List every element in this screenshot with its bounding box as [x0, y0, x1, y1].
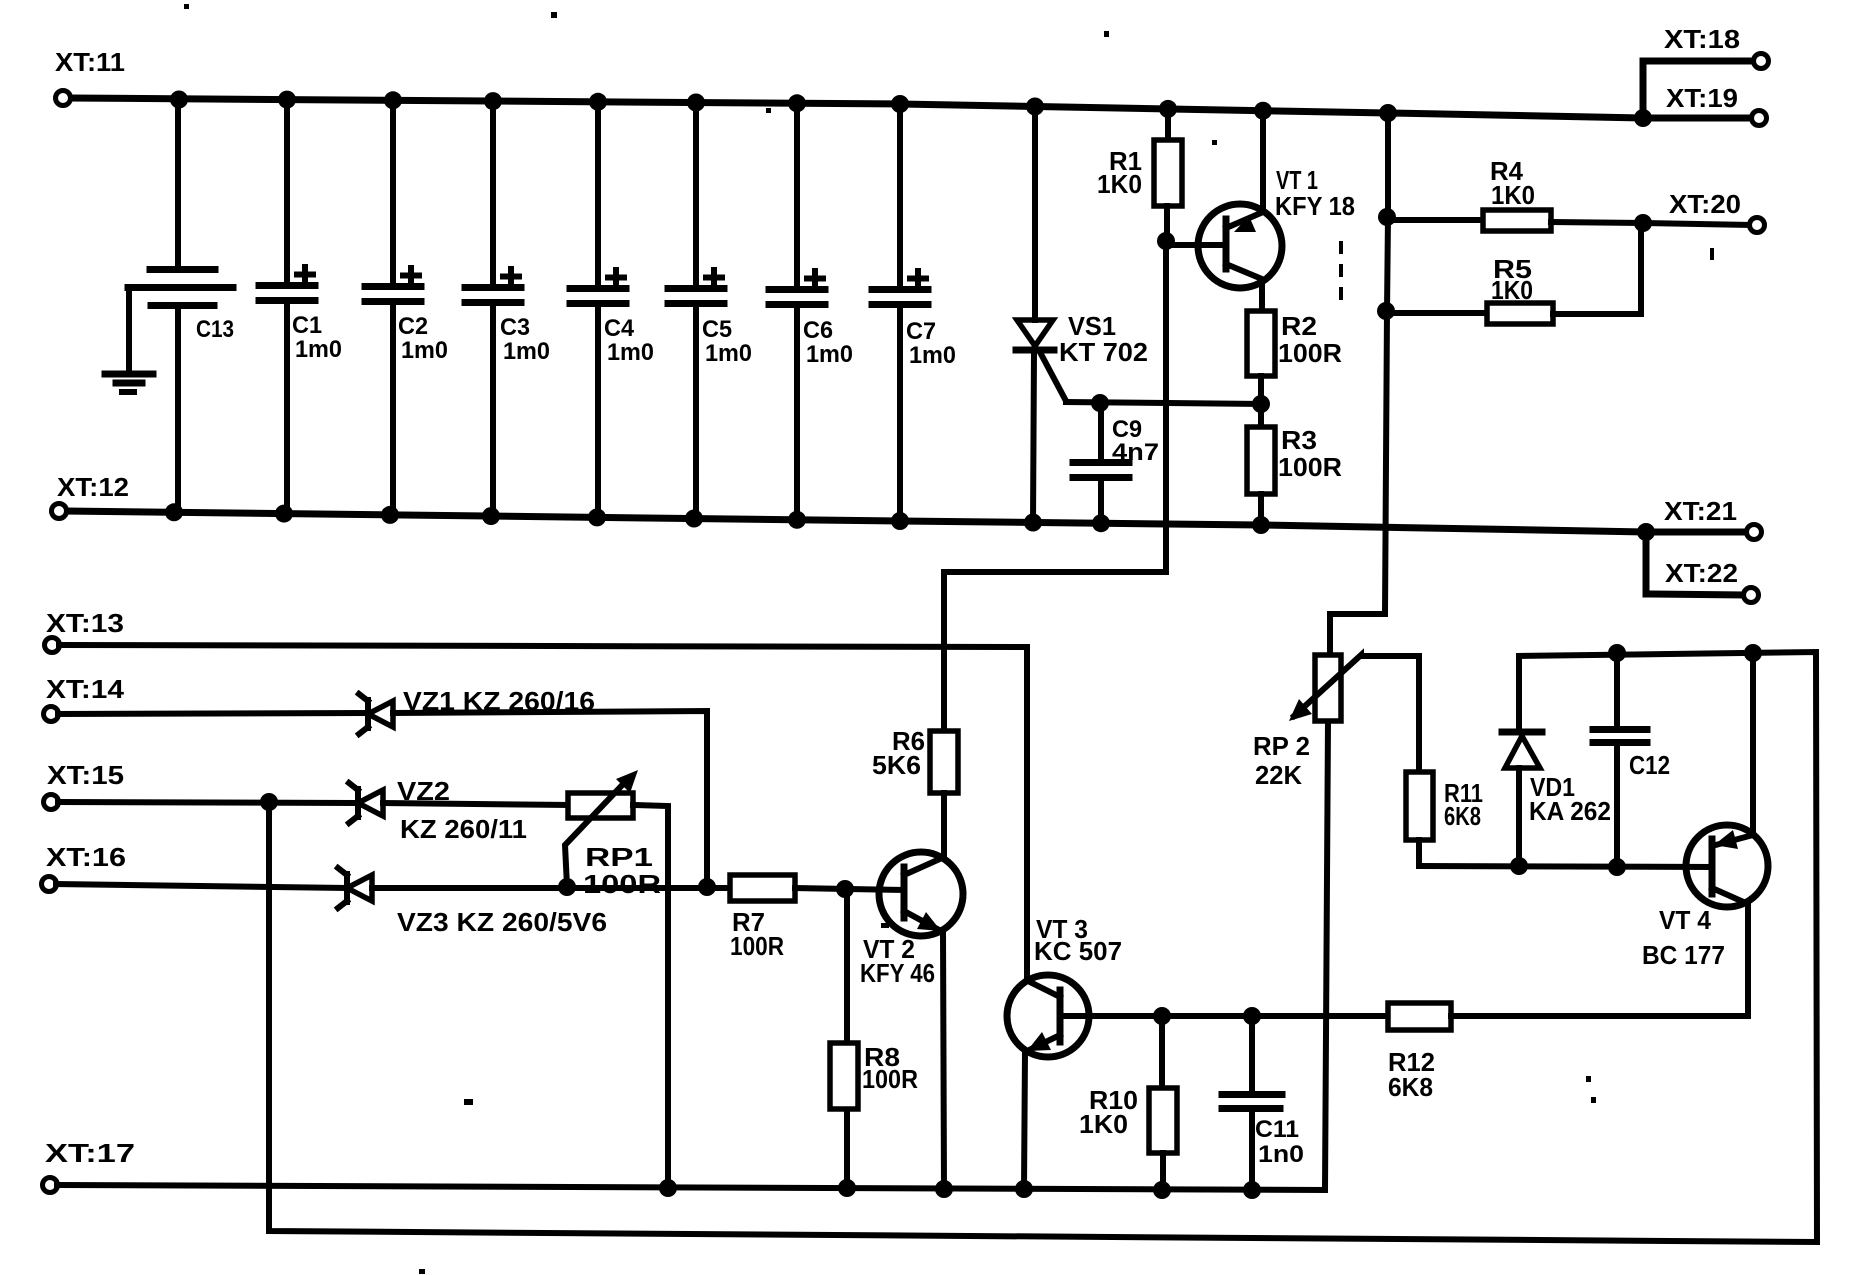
svg-text:KFY 46: KFY 46 [860, 958, 935, 988]
VT4 emitter diagonal and wire up to top line [1712, 653, 1753, 846]
wire: XT:14 to VZ1 [58, 713, 365, 714]
wire: branch from top rail up to XT:18 [1643, 61, 1753, 118]
VT4 base bar [1709, 839, 1716, 894]
svg-text:100R: 100R [1278, 338, 1342, 368]
node XT:22 terminal [1744, 588, 1759, 603]
svg-text:XT:17: XT:17 [45, 1138, 135, 1168]
svg-text:1m0: 1m0 [503, 338, 550, 365]
wire: XT:15 junction down and along bottom to right edge and up to VT4 emitter line [269, 652, 1817, 1242]
svg-text:C3: C3 [500, 314, 530, 341]
resistor R1 1K0 [1097, 109, 1182, 241]
VT2 emitter diagonal [904, 911, 941, 931]
svg-text:C2: C2 [398, 313, 428, 340]
wire: VS1 gate diagonal [1041, 354, 1066, 401]
svg-text:100R: 100R [862, 1064, 918, 1094]
svg-text:XT:19: XT:19 [1666, 83, 1738, 113]
svg-text:KC 507: KC 507 [1034, 936, 1122, 966]
VT1 emitter arrow [1234, 216, 1256, 232]
VT1 emitter diagonal and wire down to R2 [1226, 264, 1262, 311]
svg-text:1K0: 1K0 [1097, 169, 1142, 199]
svg-text:4n7: 4n7 [1112, 439, 1159, 466]
VT3 emitter arrow [1027, 1032, 1051, 1051]
resistor R8 100R [830, 890, 918, 1188]
resistor R4 1K0 [1388, 156, 1641, 231]
svg-text:1K0: 1K0 [1079, 1109, 1128, 1139]
svg-text:XT:22: XT:22 [1665, 558, 1738, 588]
svg-text:KA 262: KA 262 [1529, 796, 1611, 826]
wire: VZ3 to R7 [372, 885, 730, 891]
capacitor C11 1n0 [1222, 1016, 1304, 1190]
wire: VS1 cathode down to bottom rail [1033, 352, 1034, 523]
thyristor VS1 KT 702 [1016, 107, 1148, 523]
wire: C13 centre plate to ground [126, 288, 132, 372]
svg-text:1n0: 1n0 [1258, 1141, 1304, 1168]
svg-text:1m0: 1m0 [806, 341, 853, 368]
svg-text:5K6: 5K6 [872, 750, 921, 780]
VT3 collector diagonal [1028, 981, 1060, 997]
svg-text:1K0: 1K0 [1491, 180, 1535, 210]
node XT:13 terminal [45, 638, 60, 653]
wire: XT:16 to VZ3 [56, 884, 345, 888]
wire: RP1 right end down to XT:17 rail [633, 805, 668, 1188]
wire: top supply rail from XT:11 to XT:19 [70, 98, 1751, 118]
node XT:17 terminal [43, 1178, 58, 1193]
svg-text:100R: 100R [583, 869, 661, 899]
svg-text:C1: C1 [292, 312, 322, 339]
wire: top rail down to VS1 anode [1032, 107, 1038, 320]
svg-text:C7: C7 [906, 318, 936, 345]
zener diode VZ1 KZ 260/16 [359, 686, 595, 734]
svg-text:R3: R3 [1281, 425, 1317, 455]
capacitor C2 1m0 [365, 101, 448, 515]
transistor VT3 KC 507 [1007, 914, 1122, 1189]
svg-text:C11: C11 [1255, 1116, 1299, 1143]
wire: net from R1/VT1 base down, jog left, down to R6 [944, 241, 1166, 731]
wire: R4/R5 node to XT:20 [1643, 223, 1749, 225]
capacitor C12 [1593, 653, 1670, 867]
svg-text:VT 4: VT 4 [1659, 905, 1711, 935]
svg-text:C13: C13 [196, 316, 234, 343]
wire: bottom supply rail from XT:12 to XT:21 [66, 511, 1746, 532]
svg-text:VZ3 KZ 260/5V6: VZ3 KZ 260/5V6 [397, 907, 607, 937]
VT2 emitter arrow [917, 912, 941, 931]
RP2 wiper arrowhead [1289, 699, 1312, 721]
wire: VT1 base to R1 node [1166, 242, 1226, 248]
node XT:12 terminal [52, 504, 67, 519]
ground symbol [105, 371, 153, 378]
VT3 base bar [1057, 990, 1064, 1042]
svg-text:XT:14: XT:14 [46, 674, 125, 704]
node XT:19 terminal [1752, 111, 1767, 126]
wire: XT:15 to VZ2 [58, 802, 355, 803]
capacitor C13 centre plate [128, 284, 233, 291]
wire: vertical node from top rail through R4/R5 down to RP2 [1330, 113, 1388, 655]
svg-text:C12: C12 [1629, 750, 1670, 780]
resistor R12 6K8 [1388, 1003, 1748, 1102]
svg-text:1m0: 1m0 [401, 337, 448, 364]
svg-text:1m0: 1m0 [607, 339, 654, 366]
svg-text:BC 177: BC 177 [1642, 940, 1725, 970]
svg-text:C5: C5 [702, 316, 732, 343]
wire: VZ2 to RP1 [383, 803, 568, 805]
capacitor C13 top plate [150, 266, 215, 273]
capacitor C3 1m0 [465, 101, 550, 516]
resistor R2 100R [1247, 311, 1342, 404]
resistor R11 6K8 [1406, 656, 1483, 866]
wire: VT3 base line right to R12 [1060, 1013, 1388, 1019]
potentiometer RP2 22K [1253, 655, 1419, 790]
svg-text:XT:18: XT:18 [1664, 24, 1740, 54]
svg-text:1m0: 1m0 [295, 336, 342, 363]
VT4 collector diagonal and wire down to R12 line [1712, 888, 1748, 1016]
wire: VZ1 to corner then down to R7 node [393, 711, 707, 886]
thyristor VS1 triangle [1017, 320, 1053, 346]
svg-text:RP1: RP1 [585, 842, 653, 872]
svg-text:100R: 100R [1278, 452, 1342, 482]
VT2 base bar [901, 867, 908, 918]
svg-text:6K8: 6K8 [1388, 1072, 1433, 1102]
junction dots on top rail [170, 91, 1652, 128]
transistor VT4 BC 177 [1642, 653, 1768, 1016]
node XT:18 terminal [1754, 54, 1769, 69]
svg-text:KT 702: KT 702 [1059, 337, 1148, 367]
node XT:15 terminal [44, 795, 59, 810]
svg-text:R2: R2 [1281, 311, 1317, 341]
junction dots: lower section [260, 644, 1762, 1199]
RP2 wiper arm [1294, 655, 1419, 716]
RP1 wiper arm from R7 line node [565, 779, 628, 886]
node XT:11 terminal [56, 91, 71, 106]
svg-text:KZ 260/11: KZ 260/11 [400, 814, 527, 844]
svg-text:1K0: 1K0 [1491, 275, 1533, 305]
svg-text:1m0: 1m0 [705, 340, 752, 367]
wire: VT2 emitter down to XT:17 rail [943, 933, 944, 1189]
VT1 base bar [1223, 219, 1230, 269]
node XT:21 terminal [1747, 525, 1762, 540]
potentiometer RP1 100R [565, 770, 661, 899]
capacitor C5 1m0 [668, 102, 752, 518]
wire: VT3 emitter down to XT:17 rail [1024, 1052, 1025, 1189]
transistor VT2 KFY 46 [860, 852, 963, 1189]
resistor R6 5K6 [872, 726, 958, 858]
svg-text:XT:15: XT:15 [47, 760, 124, 790]
transistor VT1 KFY 18 [1166, 109, 1355, 311]
wire: gate node line to R2/R3 junction [1066, 402, 1261, 404]
svg-text:XT:12: XT:12 [57, 472, 129, 502]
zener diode VZ2 KZ 260/11 [349, 776, 527, 844]
node XT:20 terminal [1750, 218, 1765, 233]
VT3 emitter diagonal [1027, 1035, 1060, 1051]
capacitor C13 bottom plate [151, 302, 214, 309]
thyristor VS1 cathode bar [1016, 347, 1054, 354]
wire: XT:13 line right then down to VT3 collector [59, 645, 1027, 981]
node XT:14 terminal [44, 707, 59, 722]
capacitor C4 1m0 [570, 102, 654, 517]
diode VD1 KA 262 [1502, 656, 1611, 866]
svg-text:C4: C4 [604, 315, 635, 342]
svg-text:C6: C6 [803, 317, 833, 344]
svg-text:XT:21: XT:21 [1664, 496, 1737, 526]
wire: R5 right end up to R4/XT:20 node [1638, 223, 1644, 314]
svg-text:6K8: 6K8 [1444, 801, 1481, 831]
svg-text:XT:13: XT:13 [46, 608, 124, 638]
VT4 emitter arrow [1714, 830, 1738, 849]
svg-text:KFY 18: KFY 18 [1275, 191, 1355, 221]
scan artefact: short dashed line [1339, 241, 1343, 310]
node XT:16 terminal [42, 877, 57, 892]
zener diode VZ3 KZ 260/5V6 [338, 868, 607, 937]
capacitor C7 1m0 [872, 104, 956, 520]
svg-text:22K: 22K [1255, 760, 1302, 790]
wire: top rail down to C13 top plate [175, 100, 181, 266]
resistor R3 100R [1247, 404, 1342, 524]
svg-text:XT:11: XT:11 [55, 47, 125, 77]
resistor R5 1K0 [1387, 223, 1641, 324]
junction dots on bottom rail [165, 503, 1655, 541]
capacitor C6 1m0 [769, 103, 853, 519]
svg-text:1m0: 1m0 [909, 342, 956, 369]
capacitor C1 1m0 [259, 100, 342, 514]
svg-text:XT:16: XT:16 [46, 842, 126, 872]
wire: XT:17 rail right then up to RP2 bottom [57, 721, 1328, 1190]
RP1 wiper arrowhead [616, 770, 638, 793]
junction dots: gate line, R1 node, R4/R5 node [1091, 208, 1652, 413]
wire: branch from bottom rail down to XT:22 [1646, 532, 1743, 595]
svg-text:XT:20: XT:20 [1669, 189, 1741, 219]
VT2 collector diagonal [904, 858, 942, 875]
svg-text:RP 2: RP 2 [1253, 731, 1310, 761]
wire: base line R11 bottom to VT4 base [1419, 866, 1712, 867]
capacitor C9 4n7 [1073, 403, 1159, 523]
resistor R10 1K0 [1079, 1016, 1177, 1190]
VT1 collector diagonal and wire up to top rail [1226, 109, 1263, 228]
resistor R7 100R [730, 875, 904, 961]
capacitor C13 (feedthrough, grounded centre plate) [105, 100, 234, 513]
svg-text:100R: 100R [730, 931, 784, 961]
wire: C13 bottom plate down to bottom rail [175, 308, 181, 513]
